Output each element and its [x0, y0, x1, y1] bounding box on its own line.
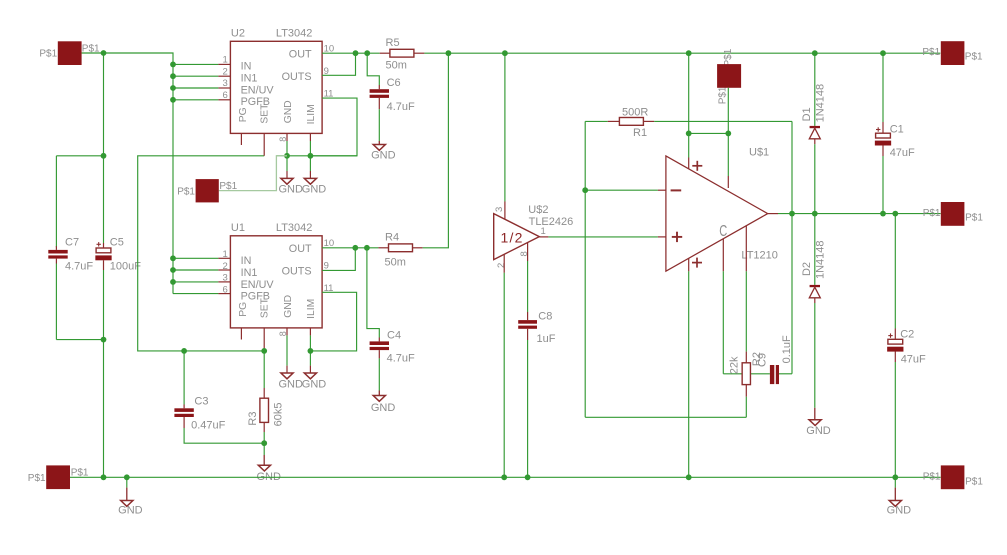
svg-text:ILIM: ILIM: [306, 299, 317, 319]
svg-text:P$1: P$1: [28, 473, 46, 484]
svg-text:47uF: 47uF: [890, 147, 915, 159]
svg-text:P$1: P$1: [39, 49, 57, 60]
svg-text:1uF: 1uF: [537, 333, 556, 345]
svg-text:EN/UV: EN/UV: [241, 279, 275, 291]
svg-text:OUT: OUT: [289, 243, 312, 255]
svg-text:ILIM: ILIM: [306, 104, 317, 124]
svg-text:4.7uF: 4.7uF: [387, 101, 415, 113]
svg-text:IN1: IN1: [241, 267, 258, 279]
svg-text:U$2: U$2: [528, 204, 548, 216]
svg-text:OUTS: OUTS: [282, 265, 312, 277]
svg-text:U2: U2: [231, 28, 245, 40]
svg-text:SET: SET: [260, 103, 271, 124]
svg-text:P$1: P$1: [965, 52, 983, 63]
svg-text:4.7uF: 4.7uF: [387, 352, 415, 364]
svg-text:GND: GND: [371, 402, 396, 414]
svg-text:C: C: [719, 223, 727, 240]
svg-text:2: 2: [496, 263, 507, 268]
svg-text:0.1uF: 0.1uF: [781, 335, 793, 363]
svg-text:P$1: P$1: [718, 86, 729, 104]
svg-text:P$1: P$1: [923, 208, 941, 219]
svg-text:60k5: 60k5: [272, 403, 284, 427]
svg-text:OUT: OUT: [289, 49, 312, 61]
svg-text:SET: SET: [260, 297, 271, 318]
svg-text:GND: GND: [278, 379, 303, 391]
svg-text:D2: D2: [801, 262, 813, 276]
svg-text:GND: GND: [118, 505, 143, 517]
svg-text:1N4148: 1N4148: [815, 240, 827, 279]
svg-text:GND: GND: [302, 379, 327, 391]
svg-text:LT3042: LT3042: [276, 28, 313, 40]
svg-text:GND: GND: [371, 149, 396, 161]
svg-text:GND: GND: [278, 183, 303, 195]
svg-text:8: 8: [278, 331, 288, 336]
svg-text:C7: C7: [65, 237, 79, 249]
svg-text:P$1: P$1: [922, 47, 940, 58]
svg-text:1N4148: 1N4148: [815, 84, 827, 123]
svg-text:R4: R4: [385, 231, 399, 243]
svg-text:GND: GND: [887, 505, 912, 517]
svg-text:C3: C3: [194, 395, 208, 407]
svg-text:PG: PG: [238, 302, 249, 317]
svg-text:R5: R5: [386, 37, 400, 49]
svg-text:50m: 50m: [385, 257, 406, 269]
svg-text:P$1: P$1: [723, 48, 734, 66]
svg-text:P$1: P$1: [71, 468, 89, 479]
svg-text:EN/UV: EN/UV: [241, 84, 275, 96]
svg-text:GND: GND: [806, 425, 831, 437]
svg-text:P$1: P$1: [219, 181, 237, 192]
svg-text:TLE2426: TLE2426: [529, 216, 574, 228]
svg-text:P$1: P$1: [177, 186, 195, 197]
svg-text:PG: PG: [238, 107, 249, 122]
svg-text:500R: 500R: [622, 107, 648, 119]
svg-text:GND: GND: [302, 183, 327, 195]
svg-text:C5: C5: [110, 237, 124, 249]
svg-text:U1: U1: [231, 222, 245, 234]
svg-text:4.7uF: 4.7uF: [65, 260, 93, 272]
svg-text:D1: D1: [801, 107, 813, 121]
svg-text:GND: GND: [283, 100, 294, 123]
svg-text:R3: R3: [247, 412, 259, 426]
svg-text:C2: C2: [900, 329, 914, 341]
svg-text:47uF: 47uF: [901, 353, 926, 365]
svg-text:LT3042: LT3042: [276, 222, 313, 234]
svg-text:OUTS: OUTS: [282, 71, 312, 83]
svg-text:100uF: 100uF: [110, 260, 141, 272]
svg-text:C9: C9: [756, 353, 768, 367]
svg-text:P$1: P$1: [82, 43, 100, 54]
svg-text:P$1: P$1: [923, 472, 941, 483]
svg-text:IN: IN: [241, 255, 252, 267]
svg-text:C6: C6: [387, 77, 401, 89]
svg-text:C4: C4: [387, 330, 401, 342]
svg-text:P$1: P$1: [965, 476, 983, 487]
svg-text:8: 8: [278, 137, 288, 142]
svg-text:R1: R1: [633, 127, 647, 139]
svg-text:C1: C1: [890, 123, 904, 135]
svg-text:C8: C8: [538, 311, 552, 323]
svg-text:GND: GND: [283, 295, 294, 318]
svg-text:1: 1: [541, 226, 546, 237]
svg-text:IN1: IN1: [241, 73, 258, 85]
svg-text:P$1: P$1: [965, 213, 983, 224]
svg-text:U$1: U$1: [749, 147, 769, 159]
svg-text:0.47uF: 0.47uF: [191, 420, 226, 432]
svg-text:22k: 22k: [729, 356, 741, 374]
svg-text:1/2: 1/2: [501, 229, 524, 245]
svg-text:50m: 50m: [386, 59, 407, 71]
svg-text:3: 3: [494, 207, 505, 212]
svg-text:IN: IN: [241, 61, 252, 73]
svg-text:8: 8: [519, 251, 530, 256]
